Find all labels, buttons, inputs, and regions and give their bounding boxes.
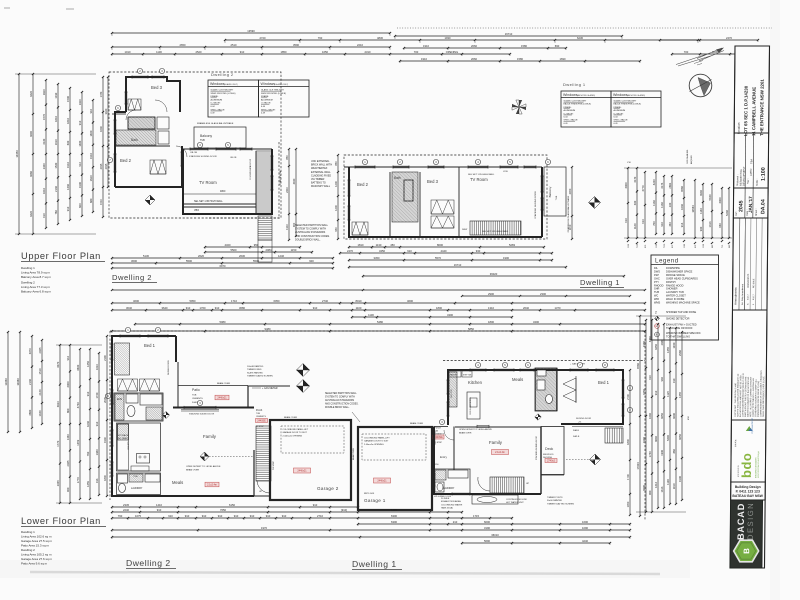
- hexagon B logo: [734, 540, 759, 562]
- laundry (dw2): [117, 473, 161, 495]
- dimension rows below dwelling 2: [111, 243, 334, 270]
- dimension cluster upper-left: [15, 73, 96, 235]
- Dwelling 2 upper floor plan: [109, 72, 297, 262]
- note timber screen: [247, 365, 273, 378]
- note partition wall lower: [325, 392, 360, 422]
- legend box: [651, 255, 719, 340]
- smoke detector diamonds: [296, 364, 310, 393]
- bath (dw1 lower): [535, 368, 557, 411]
- flanking dim strings upper: [99, 76, 573, 241]
- laundry (dw1): [434, 469, 470, 494]
- title: Lower Floor Plan: [21, 516, 106, 566]
- robes (dw2 lower): [118, 379, 138, 391]
- building design contact box: [731, 482, 766, 500]
- dimension cluster upper-right: [624, 148, 732, 248]
- smoke detector (dw1): [590, 454, 601, 465]
- label Dwelling 1 (lower): [352, 559, 402, 570]
- title block: amendments table: [732, 218, 767, 310]
- Garage 2: [270, 416, 351, 500]
- Dwelling 1 upper floor plan: [344, 155, 570, 239]
- room Bed 2: [115, 145, 170, 147]
- north arrow sketch: [676, 48, 724, 67]
- dimension rows below dwelling 1: [111, 243, 646, 291]
- balcony (dw1): [544, 167, 566, 216]
- room Bed 3: [126, 77, 180, 112]
- title block: ref/date/sheet: [733, 188, 768, 218]
- Garage 1: [352, 422, 432, 510]
- Dwelling 2 label + window schedule tables: [208, 72, 309, 117]
- bottom dimension rows: [111, 503, 631, 545]
- title block: notes text: [731, 310, 767, 420]
- stairs (dw1): [470, 221, 521, 235]
- room Bed 1 (dw2 lower): [112, 336, 176, 380]
- ensuite (dw2): [114, 393, 163, 421]
- BACAD DESIGN logo box: [730, 500, 763, 568]
- scan mark top-left: [4, 7, 10, 9]
- greensmart logo: [746, 426, 752, 431]
- middle band dim rows: [461, 292, 631, 297]
- Dwelling 2 lower floor plan: [110, 331, 645, 500]
- kitchen (dw2): [117, 423, 161, 471]
- label Dwelling 1 (upper): [580, 278, 624, 288]
- scan smudge bottom: [30, 572, 660, 574]
- title block: proposed/rev/scale: [734, 133, 769, 188]
- dimension cluster lower-left B: [56, 344, 102, 504]
- dimension rows top: [111, 28, 772, 63]
- title block: logo section: [731, 420, 766, 482]
- patio (dw2): [178, 385, 248, 387]
- note: partition wall: [295, 224, 330, 241]
- family (dw2): [173, 407, 254, 409]
- Dwelling 1 label + window schedule tables: [561, 82, 661, 127]
- stairs dwelling 2: [256, 151, 272, 214]
- smoke detector symbol: [145, 195, 155, 205]
- stairs (dw1 lower): [490, 477, 524, 493]
- smoke detector (dw2 ens): [163, 412, 170, 419]
- dimension rows above lower plans: [111, 299, 646, 333]
- dimension cluster lower-left A: [4, 331, 43, 433]
- room Bed 3 (dw1): [419, 172, 421, 237]
- gas meter note: [252, 387, 278, 390]
- room TV Room: [183, 149, 272, 214]
- flanking dim strings lower: [103, 335, 631, 516]
- circled window numbers: [105, 68, 632, 424]
- window marks lower plans: [110, 334, 624, 495]
- room TV Room (dw1): [458, 167, 460, 237]
- smoke detector near bath (dw1): [535, 414, 541, 420]
- title: Upper Floor Plan: [21, 251, 105, 294]
- deck (dw1): [541, 427, 564, 475]
- Dwelling 1 lower floor plan: [433, 331, 645, 520]
- stairs (dw2 lower): [256, 426, 271, 481]
- note: external wall: [311, 160, 332, 188]
- bath (dw1): [392, 172, 418, 222]
- label Dwelling 2 (lower): [126, 558, 176, 569]
- smoke detector (family dw2): [200, 452, 209, 461]
- label Dwelling 2 (upper): [112, 273, 157, 283]
- bed 1 (dw1 lower): [561, 370, 623, 424]
- title block: location: [734, 46, 769, 133]
- bath: [115, 112, 126, 187]
- compass circle: [689, 74, 712, 97]
- balcony: [194, 127, 246, 148]
- title block column: [730, 46, 770, 568]
- door arcs dwelling2: [155, 100, 167, 112]
- dimension cluster lower-right: [636, 315, 690, 517]
- window marks upper plans: [113, 75, 543, 220]
- window star symbol: [512, 100, 601, 209]
